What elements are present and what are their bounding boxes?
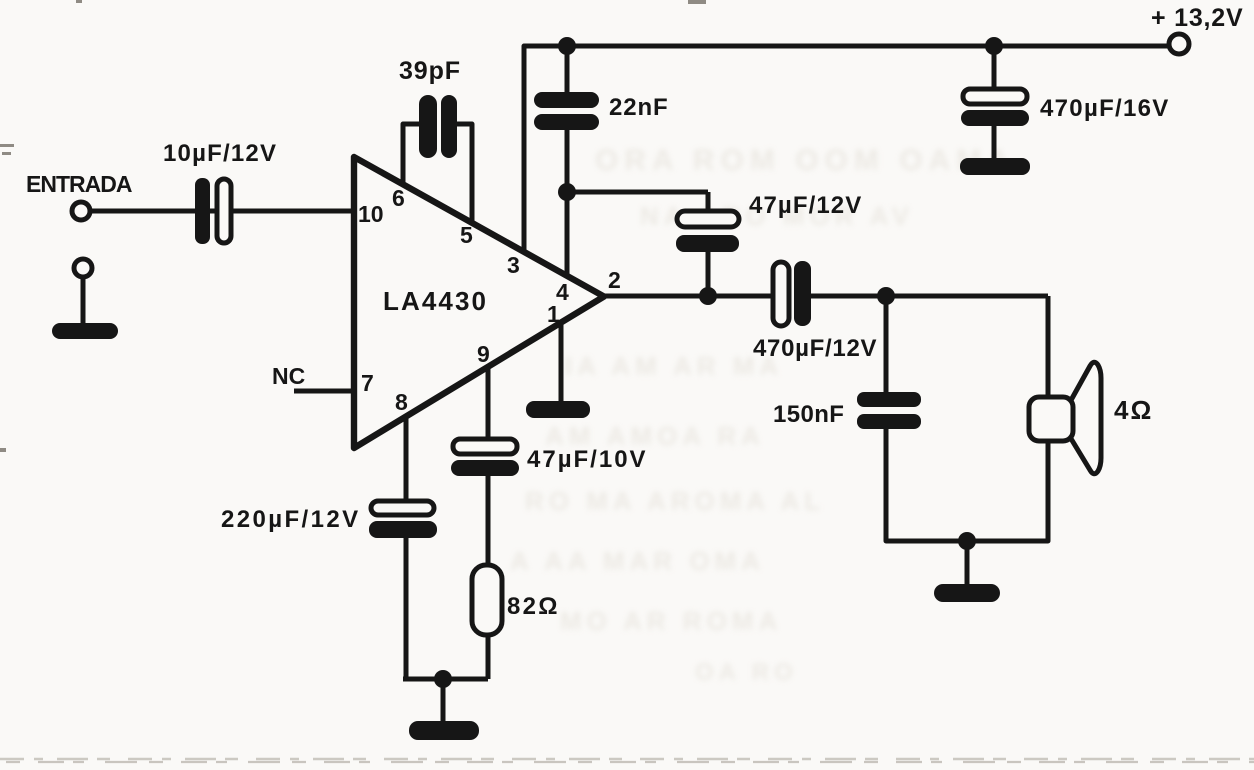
wire: output from pin 2 [600, 294, 776, 299]
wire: 39pF bracket right [455, 124, 472, 225]
ground (input) [52, 323, 118, 339]
ground (pin 1) [526, 401, 590, 418]
svg-text:220µF/12V: 220µF/12V [221, 506, 361, 533]
svg-text:2: 2 [608, 267, 621, 293]
wire: pin 1 ground lead [559, 324, 564, 404]
capacitor C5 470uF/12V [773, 261, 811, 326]
resistor R1 82ohm [472, 565, 502, 635]
scan noise: left edge marks [0, 0, 706, 452]
capacitor C9 47uF/10V [451, 439, 519, 476]
svg-text:NC: NC [272, 363, 305, 389]
svg-text:82Ω: 82Ω [507, 593, 560, 620]
wire: top supply rail [524, 46, 1168, 252]
svg-text:10: 10 [358, 201, 384, 227]
svg-text:150nF: 150nF [773, 401, 844, 428]
wire: node A horizontal to 47uF [567, 190, 708, 195]
wire: 22nF branch lower to pin 4 [565, 126, 570, 277]
wire: speaker top lead [1046, 296, 1051, 399]
svg-text:+ 13,2V: + 13,2V [1151, 4, 1243, 32]
svg-text:8: 8 [395, 389, 408, 415]
svg-text:10µF/12V: 10µF/12V [163, 140, 277, 167]
wire: input ground stub [81, 278, 86, 331]
wire: 47uF/12V bottom lead [706, 250, 711, 296]
svg-text:22nF: 22nF [609, 94, 669, 121]
svg-text:9: 9 [477, 341, 490, 367]
svg-text:47µF/10V: 47µF/10V [527, 446, 648, 473]
svg-text:47µF/12V: 47µF/12V [749, 192, 862, 219]
scan noise: ghost print-through text [510, 144, 1015, 686]
svg-text:3: 3 [507, 252, 520, 278]
capacitor C7 470uF/16V [961, 89, 1029, 126]
junction: bottom node at speaker [958, 532, 976, 550]
wire: 22nF branch upper [565, 46, 570, 96]
wire: 220uF down to bottom node [404, 536, 409, 681]
wire: NC to pin 7 [294, 389, 354, 394]
wire: pin 9 to 47uF/10V [486, 367, 491, 442]
capacitor C8 220uF/12V [369, 501, 437, 538]
wire: 150nF lower lead and bottom rail [886, 427, 1048, 541]
wire: 47uF/10V to 82ohm [486, 474, 491, 566]
junction: output node at 150nF [877, 287, 895, 305]
capacitor C1 10uF/12V [195, 178, 231, 244]
junction: bottom ground node [434, 670, 452, 688]
svg-text:39pF: 39pF [399, 57, 461, 85]
wire: 39pF bracket left [403, 124, 422, 186]
junction: node A [558, 183, 576, 201]
svg-text:ORA ROM OOM OAMA: ORA ROM OOM OAMA [595, 144, 1015, 177]
svg-text:470µF/12V: 470µF/12V [753, 335, 877, 362]
svg-text:7: 7 [361, 370, 374, 396]
ground (bottom) [409, 721, 479, 740]
junction: supply node at 470uF/16V [985, 37, 1003, 55]
wire: output after 470uF/12V [808, 294, 1048, 299]
wire: supply cap lead lower [992, 124, 997, 160]
wire: pin 8 to 220uF [404, 416, 409, 504]
junction: supply node at 22nF [558, 37, 576, 55]
supply terminal +13,2V [1169, 34, 1189, 54]
svg-text:ENTRADA: ENTRADA [26, 171, 132, 197]
wire: 150nF upper lead [884, 296, 889, 396]
svg-text:4Ω: 4Ω [1114, 395, 1153, 425]
wire: bottom node rail [403, 677, 488, 682]
svg-text:470µF/16V: 470µF/16V [1040, 95, 1170, 122]
input terminal circle [72, 202, 90, 220]
wire: 47uF/12V top lead [706, 192, 711, 215]
ground (supply cap) [960, 158, 1030, 175]
wire: bottom ground stub [441, 679, 446, 724]
scan noise: bottom dashed edge [0, 758, 1254, 761]
capacitor C6 150nF [857, 392, 921, 429]
svg-text:MO AR ROMA: MO AR ROMA [560, 606, 782, 636]
op-amp U1 LA4430 [354, 157, 604, 448]
wire: input terminal to pin 10 [92, 209, 354, 214]
wire: speaker ground stub [965, 541, 970, 586]
ground (speaker) [934, 584, 1000, 602]
svg-text:IA AM AR MA: IA AM AR MA [565, 351, 783, 381]
wire: supply cap lead upper [992, 46, 997, 92]
input ground terminal circle [74, 259, 92, 277]
svg-text:RO MA AROMA AL: RO MA AROMA AL [525, 486, 825, 516]
wire: 82ohm to bottom node [486, 633, 491, 679]
svg-text:6: 6 [392, 185, 405, 211]
svg-text:5: 5 [460, 222, 473, 248]
capacitor C3 22nF [534, 92, 599, 130]
speaker LS1 [1029, 362, 1101, 474]
svg-text:1: 1 [547, 301, 560, 327]
capacitor C2 39pF [419, 95, 457, 158]
junction: output node at 47uF [699, 287, 717, 305]
svg-text:OA RO: OA RO [695, 659, 798, 686]
svg-text:LA4430: LA4430 [383, 286, 488, 316]
capacitor C4 47uF/12V [676, 211, 739, 252]
svg-text:A AA MAR OMA: A AA MAR OMA [510, 546, 765, 576]
